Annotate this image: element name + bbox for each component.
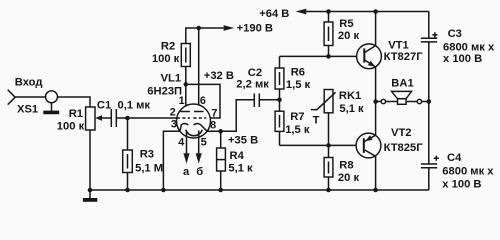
VL1 heater arc [186,130,203,136]
svg-text:C4: C4 [447,152,462,164]
transistor VT1 [357,44,382,69]
arrow +190V [224,25,235,31]
svg-text:6Н23П: 6Н23П [147,85,182,97]
svg-text:2,2 мк: 2,2 мк [236,79,269,91]
wire XS1 shield stub [51,103,53,111]
VT1 collector [364,12,375,53]
wire C4 top lead [428,102,430,165]
thermistor RK1 body [324,90,333,113]
node pin6 on +190V line [196,26,201,31]
arrow +64V [296,9,307,15]
svg-text:VT1: VT1 [388,39,409,51]
connector XS1 pin symbol [8,90,16,105]
VT2 base bar [363,138,365,153]
capacitor C2 plates [253,94,255,108]
svg-text:Вход: Вход [15,77,43,89]
BA1 right terminal [417,99,421,103]
svg-text:х 100 В: х 100 В [443,53,482,65]
svg-text:1: 1 [179,95,185,107]
svg-text:R4: R4 [230,150,245,162]
resistor R4 body [217,148,226,171]
svg-text:+32 В: +32 В [204,70,234,82]
R1 wiper arrow [95,115,102,121]
RK1 diagonal [311,92,336,109]
wire right terminal to C3/C4 node [422,101,429,103]
node R5 top on +64V rail [326,9,331,14]
VL1 right anode plate [194,111,204,113]
svg-text:3: 3 [171,118,177,130]
svg-text:R3: R3 [140,149,154,161]
svg-text:20 к: 20 к [338,172,360,184]
wire rail corner to C3 [428,12,430,39]
node VT1 collector on rail [373,9,378,14]
svg-text:R7: R7 [290,111,304,123]
resistor R2 body [181,44,190,67]
wire R7 bottom to VT2 base node [280,144,329,146]
node rail cathode [161,188,166,193]
ground symbol bar [83,198,97,202]
svg-text:R8: R8 [339,159,353,171]
R2 power mark [185,48,187,63]
svg-text:Т: Т [313,114,320,126]
svg-text:RK1: RK1 [339,90,361,102]
svg-text:1,5 к: 1,5 к [286,79,311,91]
wire C3 bottom to speaker node [428,42,430,102]
node rail R3 [125,188,130,193]
wire R6 leads [279,56,281,99]
transistor VT2 [356,133,381,158]
wire R5 leads [328,12,330,57]
VL1 right grid dashes [193,117,206,119]
tube VL1 envelope [177,104,211,138]
resistor R7 body [275,111,284,131]
VT2 emitter [364,102,376,142]
svg-text:100 к: 100 к [152,53,180,65]
svg-text:6800 мк х: 6800 мк х [442,166,494,178]
wire terminal to speaker [386,101,398,103]
arrow heater b [196,153,202,163]
svg-text:BA1: BA1 [391,78,413,90]
capacitor C3 plates [421,37,437,39]
node pin8 R4 junction [218,129,223,134]
capacitor C1 plates [110,109,112,127]
svg-text:XS1: XS1 [17,103,38,115]
wire heater pin 4 [186,130,188,154]
node rail R4 [218,188,223,193]
svg-text:5,1 М: 5,1 М [135,163,163,175]
node XS1 jack circle [46,91,58,103]
node C3/C4/speaker [427,99,432,104]
speaker BA1 coil [398,99,407,105]
svg-text:R1: R1 [69,108,83,120]
VT2 emitter arrow [365,135,372,141]
node R6 R7 C2 [277,97,282,102]
svg-text:КТ825Г: КТ825Г [384,142,424,154]
wire VT1 base [280,55,357,57]
svg-text:+64 В: +64 В [259,8,289,20]
wire heater pin 5 [198,130,200,154]
VT1 emitter [364,60,375,102]
VL1 left cathode [180,124,188,132]
node rail R1 [88,188,93,193]
ground XS1 chassis bar [43,111,59,115]
C3 plus sign [432,32,437,37]
wire C2 to R6/R7 node [259,99,279,101]
svg-text:C3: C3 [448,28,462,40]
wire R7 leads [279,100,281,146]
VL1 left grid dashes [177,117,190,119]
wire C4 bottom lead [428,168,430,190]
svg-text:+35 В: +35 В [228,134,258,146]
wire R2 bottom to +32V node [185,67,187,85]
VT1 emitter arrow [368,61,375,67]
VT1 base bar [363,48,365,62]
wire cathode pin 3 to ground [163,131,180,190]
wire output to BA1 [376,101,382,103]
svg-text:20 к: 20 к [338,30,360,42]
R7 power mark [279,115,281,128]
svg-text:0,1 мк: 0,1 мк [118,99,151,111]
wire R4 leads [220,131,222,190]
node rail VT2 collector [373,188,378,193]
svg-text:VL1: VL1 [161,72,182,84]
svg-text:2: 2 [170,106,176,118]
svg-text:R5: R5 [339,18,353,30]
R6 power mark [279,72,281,85]
wire R2 top to +190V rail [186,28,224,44]
wire R3 leads [127,118,129,190]
svg-text:5: 5 [201,137,207,149]
arrow heater a [183,153,189,163]
node VT2 base junction [326,143,331,148]
svg-text:б: б [196,166,203,178]
svg-text:КТ827Г: КТ827Г [384,51,424,63]
wire R8 leads [328,145,330,190]
VT2 collector [364,149,376,190]
resistor R6 body [275,68,284,89]
svg-text:100 к: 100 к [57,121,85,133]
resistor R8 body [324,158,333,178]
wire speaker to right terminal [406,101,417,103]
svg-text:8: 8 [210,120,216,132]
ground symbol stub [89,190,91,198]
wire pin 1 anode [185,84,187,111]
node R5/RK1/base [326,54,331,59]
node C1/R3 junction [125,116,130,121]
wire R1 wiper to C1 [100,117,111,119]
svg-text:х 100 В: х 100 В [442,178,481,190]
resistor R1 potentiometer body [86,107,95,130]
svg-text:6800 мк х: 6800 мк х [443,41,495,53]
node output left [373,99,378,104]
svg-text:5,1 к: 5,1 к [228,163,253,175]
svg-text:R6: R6 [291,67,305,79]
svg-text:5,1 к: 5,1 к [339,103,364,115]
wire input XS1 to R1 top [15,97,90,107]
R3 power mark [127,154,129,169]
ground rail [90,189,429,191]
svg-text:6: 6 [200,95,206,107]
wire RK1 bottom [328,113,330,146]
node rail R8 [326,188,331,193]
resistor R3 body [123,150,133,173]
VL1 right cathode [194,124,208,132]
svg-text:1,5 к: 1,5 к [285,124,310,136]
resistor R5 body [324,22,333,46]
wire +32V node to grid pin 7 [186,84,220,118]
svg-text:VT2: VT2 [391,127,412,139]
wire VT2 base [329,144,357,146]
speaker BA1 cone [392,91,412,98]
svg-text:4: 4 [178,137,184,149]
BA1 left terminal [381,99,385,103]
+64V rail [306,11,429,13]
wire R1 bottom to ground rail [89,130,91,190]
R4 power mark [217,159,226,161]
wire pin 6 anode column [198,28,200,112]
VL1 left anode plate [180,111,190,113]
wire cathode pin 8 to R4/C2 [207,100,254,132]
svg-text:а: а [183,166,190,178]
svg-text:+190 В: +190 В [237,22,273,34]
C4 plus sign [434,156,439,161]
svg-text:C2: C2 [248,67,262,79]
R5 power mark [328,27,330,42]
svg-text:7: 7 [211,108,217,120]
svg-text:R2: R2 [161,40,175,52]
wire C1 to grid pin 2 [116,117,177,119]
capacitor C4 plates [421,163,437,165]
svg-text:C1: C1 [97,99,111,111]
node +32V junction [184,82,189,87]
R8 power mark [328,162,330,174]
